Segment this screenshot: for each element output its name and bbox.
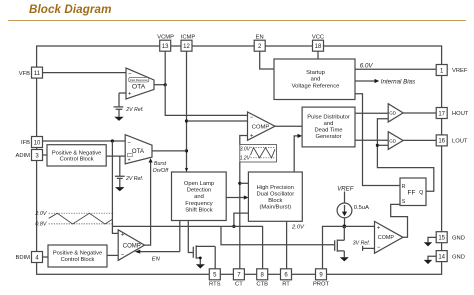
pin 4 BDIM (32, 252, 43, 263)
wire VCC pin18 into startup block (317, 51, 319, 59)
svg-text:VCMP: VCMP (157, 34, 174, 40)
battery 2V Ref for OTA2 (115, 156, 125, 187)
wire ICMP branch to COMP inverting input (187, 120, 248, 122)
svg-text:High Precision: High Precision (257, 185, 294, 191)
svg-text:Startup: Startup (306, 70, 325, 76)
svg-text:−: − (127, 141, 131, 147)
svg-text:+: + (250, 133, 254, 139)
svg-text:and: and (324, 121, 334, 127)
wire IFB pin10 to OTA2 inverting input (43, 140, 126, 142)
chip boundary frame (37, 46, 442, 274)
svg-text:VREF: VREF (337, 185, 355, 192)
svg-text:COMP: COMP (123, 243, 141, 249)
pin 11 VFB (32, 67, 43, 78)
pin 14 GND (436, 251, 447, 262)
pin 2 EN (254, 40, 265, 51)
svg-text:IFB: IFB (21, 140, 30, 146)
svg-text:CTB: CTB (256, 281, 268, 287)
svg-text:+: + (128, 92, 132, 98)
svg-text:OTA: OTA (132, 83, 146, 90)
block B1 Positive and Negative Control (ADIM) (47, 145, 106, 166)
svg-text:RT: RT (282, 281, 290, 287)
svg-text:GND: GND (452, 235, 465, 241)
svg-text:EN: EN (256, 34, 264, 40)
wire ICMP pin12 vertical to Open Lamp block with arrow (186, 51, 188, 168)
wire VREF node to PROT pin9 (323, 226, 345, 268)
svg-text:−: − (377, 245, 381, 251)
svg-text:RTS: RTS (209, 281, 221, 287)
pin 15 GND (436, 232, 447, 243)
wire RT pin6 to oscillator bottom (286, 221, 288, 268)
pin 10 IFB (32, 137, 43, 148)
svg-text:Control Block: Control Block (60, 157, 94, 163)
wire IFB branch down to burst line and comparator plus (112, 141, 118, 233)
svg-text:Pulse Distributor: Pulse Distributor (307, 114, 350, 120)
wire control block B2 to burst comparator minus (107, 254, 118, 256)
svg-text:EN: EN (152, 256, 161, 262)
svg-text:COMP: COMP (252, 124, 270, 130)
battery 2V Ref for OTA1 (114, 93, 127, 117)
svg-text:3V Ref.: 3V Ref. (353, 241, 370, 247)
comparator COMP main (248, 112, 276, 140)
svg-text:(Main/Burst): (Main/Burst) (260, 204, 292, 210)
svg-text:Positive & Negative: Positive & Negative (53, 251, 102, 257)
pin 18 VCC (313, 40, 324, 51)
waveform box main oscillator 3.0V/1.2V (240, 145, 277, 163)
svg-text:VREF: VREF (452, 68, 468, 74)
title Block Diagram (29, 3, 112, 16)
svg-text:2.0V: 2.0V (34, 211, 47, 217)
buffer GD1 high side (355, 112, 388, 114)
ground under M2 (340, 257, 349, 261)
op-amp OTA2 (125, 135, 152, 164)
wire burst comparator output up to OTA2 enable with arrow (145, 163, 151, 246)
svg-text:S: S (402, 199, 406, 205)
wire control block B1 to OTA2 plus (106, 155, 125, 157)
svg-text:OTA: OTA (132, 148, 145, 155)
pin 5 RTS (209, 269, 220, 280)
node OTA2 output junction dot (185, 149, 188, 152)
svg-text:−: − (128, 71, 132, 77)
ground below OTA2 battery (115, 187, 124, 191)
ground at pin 14 (428, 256, 436, 260)
svg-text:+: + (128, 157, 131, 163)
svg-text:Burst: Burst (154, 161, 167, 167)
current source 0.5uA (344, 192, 346, 204)
svg-text:Shift Block: Shift Block (185, 207, 212, 213)
wire OTA2 output to ICMP net (152, 150, 187, 152)
svg-text:CT: CT (235, 281, 243, 287)
svg-text:PROT: PROT (313, 281, 330, 287)
svg-text:BDIM: BDIM (16, 255, 31, 261)
pin 9 PROT (316, 269, 327, 280)
wire startup to FF reset input (355, 94, 400, 186)
node ICMP branch dot (185, 119, 188, 122)
node Q branch dot (376, 144, 379, 147)
svg-text:13: 13 (162, 44, 169, 50)
svg-text:Q: Q (419, 190, 423, 196)
svg-text:Voltage Reference: Voltage Reference (292, 83, 340, 89)
svg-text:GD: GD (389, 111, 397, 116)
node VCMP junction dot (164, 83, 167, 86)
svg-text:14: 14 (438, 254, 445, 260)
wire 6.0V reference to VREF pin1 (355, 68, 436, 70)
svg-text:11: 11 (34, 71, 41, 77)
svg-text:0.8V: 0.8V (35, 221, 47, 227)
transistor M1 RTS switch (193, 245, 215, 269)
svg-text:Generator: Generator (315, 134, 341, 140)
wire FF Q output up to gate drive enables (377, 119, 433, 192)
wire BDIM pin4 to control block B2 (43, 256, 49, 258)
svg-text:Fast Response: Fast Response (130, 78, 148, 82)
block High Precision Dual Oscillator (248, 172, 302, 221)
wire COMP plus input from oscillator waveform (240, 136, 248, 145)
wire COMP2 output to FF set input (391, 204, 408, 237)
svg-text:−: − (250, 115, 254, 121)
node VREF junction dot (342, 225, 346, 229)
wire EN pin2 into startup block (260, 51, 274, 69)
svg-text:On/Off: On/Off (153, 168, 169, 174)
svg-text:Internal Bias: Internal Bias (381, 79, 415, 86)
svg-text:ICMP: ICMP (181, 34, 196, 40)
svg-text:+: + (377, 226, 381, 232)
svg-text:0.5uA: 0.5uA (354, 205, 369, 211)
svg-text:16: 16 (438, 139, 445, 145)
node IFB branch dot (111, 139, 114, 142)
block B2 Positive and Negative Control (BDIM) (48, 245, 107, 267)
svg-text:HOUT: HOUT (452, 111, 469, 117)
svg-text:and: and (194, 194, 204, 200)
svg-text:and: and (311, 76, 321, 82)
svg-text:18: 18 (315, 44, 322, 50)
svg-text:COMP: COMP (378, 235, 395, 241)
comparator COMP2 lamp voltage (375, 221, 404, 253)
wire VFB pin11 to OTA1 inverting input (43, 72, 127, 74)
pin 13 VCMP (160, 40, 171, 51)
svg-text:12: 12 (183, 44, 190, 50)
svg-text:3.0V: 3.0V (240, 146, 251, 152)
svg-text:ADIM: ADIM (16, 153, 31, 159)
wire ADIM pin3 to control block (43, 154, 48, 156)
wire oscillator to pulse distributor with arrow (294, 136, 297, 172)
svg-text:+: + (121, 233, 125, 239)
svg-text:Control Block: Control Block (61, 257, 95, 263)
svg-text:GND: GND (452, 254, 465, 260)
pin 16 LOUT (436, 135, 447, 146)
wire EN arrow into burst comparator output net (135, 250, 141, 254)
svg-text:2V Ref.: 2V Ref. (125, 107, 143, 113)
pin 1 VREF (436, 65, 447, 76)
wire CT column from waveform to pin7 (239, 162, 241, 269)
node CT branch dot (238, 182, 241, 185)
wire long gate line from burst line to M2 gate (221, 226, 335, 244)
node burst wave junction dot (232, 225, 235, 228)
svg-text:Dead Time: Dead Time (314, 128, 342, 134)
block U2 Pulse Distributor and Dead Time Generator (302, 107, 355, 147)
ground under M1 (196, 264, 205, 268)
pin 17 HOUT (436, 108, 447, 119)
svg-text:R: R (402, 184, 406, 190)
svg-text:GD: GD (389, 138, 397, 143)
svg-text:Block: Block (268, 198, 282, 204)
buffer GD2 low side (355, 139, 388, 141)
op-amp OTA1 fast response (126, 68, 154, 99)
pin 12 ICMP (181, 40, 192, 51)
svg-text:Positive & Negative: Positive & Negative (52, 150, 101, 156)
svg-text:VFB: VFB (19, 71, 30, 77)
svg-text:Detection: Detection (187, 188, 212, 194)
title underline (8, 20, 466, 22)
svg-text:17: 17 (438, 111, 445, 117)
svg-text:LOUT: LOUT (452, 139, 468, 145)
wire main wave into oscillator block (240, 182, 249, 184)
wire open lamp block to oscillator with arrow (226, 197, 244, 199)
wire VREF node to comparator plus (344, 225, 374, 227)
pin 6 RT (281, 269, 292, 280)
svg-text:10: 10 (34, 140, 41, 146)
wire Q branch to GD2 (377, 144, 388, 146)
wire VCMP pin13 down and right to COMP inverting input (165, 51, 247, 115)
pin 3 ADIM (32, 150, 43, 161)
wire internal bias arrow (355, 80, 375, 82)
pin 7 CT (233, 269, 244, 280)
svg-text:Open Lamp: Open Lamp (184, 181, 214, 187)
wire burst triangle line to CTB pin8 (112, 226, 262, 268)
comparator COMP burst (118, 230, 144, 261)
wire burst wave from oscillator left edge down to burst line (234, 213, 249, 226)
ground below OTA1 battery (114, 117, 123, 121)
svg-text:VCC: VCC (312, 34, 324, 40)
transistor M2 protection pulldown (335, 226, 345, 257)
flip-flop FF (400, 178, 426, 206)
ground at pin 15 (428, 237, 436, 242)
pin 8 CTB (257, 269, 268, 280)
svg-text:2.0V: 2.0V (291, 225, 305, 231)
block U1 Startup and Voltage Reference (274, 59, 355, 100)
svg-text:−: − (121, 253, 125, 259)
wire COMP output to pulse distributor (275, 125, 302, 127)
wire open lamp block to RTS mosfet gate (188, 221, 193, 253)
svg-text:2V Ref.: 2V Ref. (125, 176, 143, 182)
node M1 source dot (199, 257, 202, 260)
svg-text:Dual Oscillator: Dual Oscillator (256, 192, 294, 198)
svg-text:Frequency: Frequency (185, 201, 212, 207)
svg-text:1.2V: 1.2V (240, 156, 251, 162)
wire OTA1 output to VCMP node (154, 84, 165, 86)
svg-text:FF: FF (408, 189, 416, 196)
svg-text:15: 15 (438, 236, 445, 242)
svg-text:6.0V: 6.0V (360, 63, 374, 70)
block Open Lamp Detection and Frequency Shift (172, 172, 227, 221)
